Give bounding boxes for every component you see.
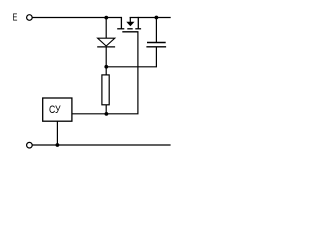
transistor VT channel dash 1 <box>117 28 124 30</box>
wire resistor top lead <box>105 67 107 75</box>
svg-text:СУ: СУ <box>49 104 61 116</box>
wire bottom rail <box>32 144 170 146</box>
terminal bottom left <box>27 142 33 148</box>
node junction dot bottom rail <box>56 143 60 147</box>
wire control unit bottom lead <box>56 121 58 145</box>
transistor VT right electrode (top rail down to channel) <box>137 17 139 29</box>
transistor VT substrate arrow lead <box>129 18 131 23</box>
control unit box CU <box>43 98 72 121</box>
wire diode anode lead <box>105 18 107 39</box>
svg-text:E: E <box>13 13 18 24</box>
transistor VT MOSFET gate bar <box>122 31 138 33</box>
wire top rail right (over substrate arrow to right edge) <box>130 17 171 19</box>
transistor VT left electrode (from top rail down to channel) <box>120 17 122 29</box>
transistor VT channel dash 3 <box>135 28 141 30</box>
transistor VT channel dash 2 <box>127 28 132 30</box>
wire control unit output (box to bottom junction dot) <box>72 113 106 115</box>
capacitor C plate top <box>147 42 166 44</box>
wire diode cathode lead <box>105 47 107 67</box>
capacitor C plate bottom <box>146 46 166 48</box>
wire gate net (dot to riser to transistor gate) <box>106 32 138 114</box>
resistor R (vertical rectangle) <box>102 75 109 105</box>
node junction dot bottom (resistor / gate / control unit net) <box>105 112 109 116</box>
wire resistor bottom lead <box>105 105 107 114</box>
transistor VT substrate arrow (filled triangle pointing down) <box>126 22 134 27</box>
node junction dot top right (capacitor tap) <box>155 16 159 20</box>
wire capacitor bottom lead to middle node <box>106 47 156 67</box>
node junction dot top (diode anode tap) <box>104 16 108 20</box>
node junction dot middle (diode cathode / resistor / capacitor net) <box>104 65 108 69</box>
wire top rail left (E terminal to transistor left electrode) <box>32 17 121 19</box>
terminal E (input, top left) <box>27 15 33 21</box>
diode VD (anode top, cathode bottom) <box>98 38 115 46</box>
wire capacitor top lead <box>155 18 157 43</box>
